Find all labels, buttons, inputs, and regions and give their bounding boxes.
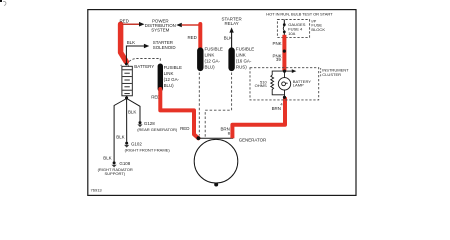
svg-text:BATTERY: BATTERY (134, 64, 154, 69)
instrument cluster top junction (283, 70, 286, 73)
svg-text:BLK: BLK (127, 40, 135, 45)
svg-text:(REAR GENERATOR): (REAR GENERATOR) (137, 127, 178, 132)
svg-text:RED: RED (120, 19, 129, 24)
battery negative lead (126, 96, 128, 98)
wire: branch to resistor (272, 71, 284, 75)
wire: thin red lead from arrow to fusible link wire (182, 24, 201, 26)
wire: ground branch to G128 (127, 99, 140, 122)
ground G102 (125, 142, 128, 145)
generator BAT terminal junction (197, 136, 201, 140)
indicator lamp BATTERY LAMP (278, 78, 290, 90)
arrowhead up to starter relay (229, 27, 233, 32)
svg-text:B: B (228, 131, 231, 136)
battery B1 top junction (125, 63, 128, 66)
wire: ground branch to G102 (126, 99, 128, 142)
svg-text:FUSIBLE: FUSIBLE (236, 46, 254, 51)
svg-text:76913: 76913 (91, 188, 103, 193)
svg-text:(RIGHT FRONT FRAME): (RIGHT FRONT FRAME) (125, 147, 171, 152)
svg-text:BRN: BRN (272, 106, 281, 111)
svg-text:LAMP: LAMP (293, 83, 304, 88)
svg-text:BLOCK: BLOCK (311, 27, 325, 32)
wire: RED generator feed (fusible link A to generator BAT terminal) (160, 89, 198, 138)
generator GEN1 body (194, 139, 238, 183)
battery negative junction (125, 96, 128, 99)
svg-text:OHMS: OHMS (255, 83, 267, 88)
wire: thin red lead to POWER DISTRIBUTION arrow (122, 23, 140, 25)
svg-text:FUSIBLE: FUSIBLE (205, 46, 223, 51)
arrowhead to STARTER SOLENOID (144, 44, 149, 49)
wire: dashed lead fusible link B to generator (198, 73, 200, 136)
corner artifact mark (0, 0, 2, 2)
generator internal ground dot (214, 183, 218, 187)
arrowhead internal feed (292, 69, 297, 73)
wire: PNK fuse output to instrument cluster (highlighted red) (282, 35, 286, 71)
svg-text:BLU): BLU) (205, 64, 216, 69)
svg-text:RED: RED (180, 126, 189, 131)
wire: BLK lead to starter solenoid (126, 46, 144, 64)
svg-text:G102: G102 (131, 141, 142, 146)
splice on PNK wire (283, 50, 286, 53)
generator terminal bar (198, 137, 233, 139)
battery B1 (122, 66, 132, 96)
svg-text:FUSIBLE: FUSIBLE (164, 65, 182, 70)
svg-text:RUS): RUS) (236, 64, 247, 69)
svg-text:(16 GA-: (16 GA- (236, 58, 252, 63)
svg-text:PNK: PNK (273, 41, 282, 46)
svg-text:BLK: BLK (103, 156, 111, 161)
fuse element (283, 26, 284, 31)
wire: dashed lead fusible link C to generator (205, 73, 231, 138)
svg-text:CLUSTER: CLUSTER (322, 72, 341, 77)
label INSTRUMENT CLUSTER (320, 68, 322, 77)
ground G108 (113, 161, 116, 164)
svg-text:(12 GA-: (12 GA- (164, 77, 180, 82)
instrument cluster dashed box (250, 68, 319, 100)
svg-text:BLK: BLK (116, 135, 124, 140)
diagram border frame (88, 10, 356, 196)
wire: red feed down to fusible link B (198, 24, 202, 48)
svg-text:(12 GA-: (12 GA- (205, 58, 221, 63)
svg-text:G108: G108 (119, 161, 130, 166)
wire: internal feed arrow (285, 70, 294, 72)
ground G128 (139, 121, 142, 124)
svg-text:RED: RED (188, 35, 197, 40)
svg-text:LINK: LINK (164, 71, 174, 76)
svg-text:LINK: LINK (236, 52, 246, 57)
wire: ground branch to G108 (114, 99, 127, 162)
wire: black lead starter relay to fusible link C (231, 32, 233, 48)
wire: resistor bottom to lamp bottom (272, 91, 284, 95)
fusible link C (16 GA-RUS) bar (228, 51, 234, 68)
wire: lamp top lead (284, 71, 286, 78)
svg-text:BLU): BLU) (164, 83, 175, 88)
wire: dashed lead battery positive to fusible link A (129, 59, 160, 63)
fuse top lead (283, 20, 285, 25)
fusible link A (battery 12 GA-BLU) bar (158, 66, 163, 89)
instrument cluster bottom junction (283, 96, 286, 99)
arrowhead to POWER DISTRIBUTION SYSTEM (139, 22, 145, 27)
wire: lamp bottom lead (284, 90, 286, 97)
arrowhead (left pointing) from power distribution (176, 23, 182, 28)
svg-text:SOLENOID: SOLENOID (153, 45, 176, 50)
svg-text:RELAY: RELAY (225, 21, 239, 26)
svg-text:SUPPORT): SUPPORT) (104, 171, 125, 176)
svg-text:39: 39 (276, 57, 281, 62)
svg-text:GENERATOR: GENERATOR (239, 137, 267, 142)
svg-text:G128: G128 (144, 121, 155, 126)
svg-text:10A: 10A (288, 31, 295, 36)
fuse bottom lead (283, 32, 285, 35)
svg-text:BLK: BLK (128, 109, 136, 114)
svg-text:HOT IN RUN, BULB TEST OR START: HOT IN RUN, BULB TEST OR START (266, 12, 333, 17)
fusible link B (12 GA-BLU) bar (197, 51, 203, 68)
svg-text:BLK: BLK (224, 35, 232, 40)
wire: BRN generator to instrument cluster (highlighted red) (232, 97, 285, 138)
resistor 510 ohms (271, 75, 274, 91)
I/P fuse block dashed box (277, 20, 309, 38)
wire: RED battery positive cable (thick red, battery to top-left corner) (121, 24, 127, 62)
svg-text:LINK: LINK (205, 52, 215, 57)
fuse GAUGES FUSE 4 terminals (283, 23, 286, 26)
svg-text:SYSTEM: SYSTEM (151, 27, 169, 32)
